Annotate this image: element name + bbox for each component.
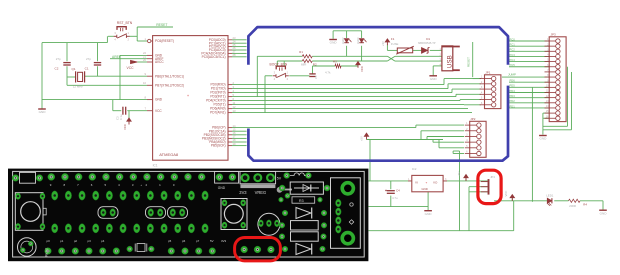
svg-text:D1: D1 — [426, 37, 430, 41]
svg-text:Reset: Reset — [45, 248, 49, 257]
svg-text:PB6(XTAL1/TOSC1): PB6(XTAL1/TOSC1) — [155, 74, 184, 78]
svg-text:PC3: PC3 — [510, 53, 516, 57]
svg-text:R3: R3 — [333, 60, 337, 64]
svg-text:GND: GND — [422, 187, 428, 191]
svg-text:USB: USB — [446, 55, 453, 68]
svg-text:C2: C2 — [55, 67, 59, 71]
svg-text:JP4: JP4 — [490, 175, 495, 179]
svg-text:GND: GND — [330, 41, 338, 45]
svg-text:RESET: RESET — [467, 57, 471, 67]
svg-text:GND: GND — [539, 137, 547, 141]
svg-text:R3: R3 — [299, 199, 304, 203]
svg-text:PD1: PD1 — [510, 104, 516, 108]
svg-text:PB7(XTAL2/TOSC2): PB7(XTAL2/TOSC2) — [155, 83, 184, 87]
svg-text:PD6: PD6 — [510, 79, 516, 83]
svg-text:p1: p1 — [60, 239, 64, 243]
svg-text:VCC: VCC — [360, 66, 364, 72]
svg-text:VCC: VCC — [504, 191, 508, 197]
svg-text:3V3: 3V3 — [239, 190, 247, 195]
svg-text:+5V: +5V — [457, 171, 461, 176]
svg-text:GND: GND — [430, 77, 438, 81]
svg-text:10: 10 — [143, 81, 146, 85]
svg-text:GND: GND — [218, 186, 226, 190]
svg-text:R2: R2 — [313, 62, 317, 66]
svg-text:+5V: +5V — [381, 41, 385, 46]
svg-text:12 MHz: 12 MHz — [73, 85, 84, 89]
svg-text:RST_BTN: RST_BTN — [117, 21, 133, 25]
svg-text:PC1: PC1 — [510, 42, 516, 46]
svg-text:VCC: VCC — [155, 109, 162, 113]
svg-text:14: 14 — [233, 124, 236, 128]
svg-text:PD7(AIN1): PD7(AIN1) — [210, 111, 225, 115]
svg-text:27: 27 — [233, 50, 236, 54]
svg-text:R4: R4 — [583, 202, 587, 206]
svg-text:VI: VI — [415, 180, 418, 184]
svg-text:FUSE: FUSE — [391, 42, 399, 46]
svg-text:IC2: IC2 — [412, 167, 417, 171]
svg-text:C5: C5 — [314, 75, 318, 79]
svg-text:18: 18 — [233, 138, 236, 142]
svg-text:ATMEGA8: ATMEGA8 — [159, 152, 179, 157]
svg-text:17: 17 — [233, 135, 236, 139]
svg-text:PD2: PD2 — [510, 99, 516, 103]
svg-text:p2: p2 — [74, 239, 78, 243]
svg-text:LED1: LED1 — [546, 193, 554, 197]
svg-text:p4: p4 — [101, 239, 105, 243]
svg-text:LED2: LED2 — [341, 37, 345, 44]
svg-text:GND: GND — [155, 98, 163, 102]
svg-text:C4: C4 — [396, 189, 400, 193]
svg-text:27p: 27p — [56, 57, 61, 61]
svg-text:68R: 68R — [301, 62, 306, 66]
svg-text:JP3: JP3 — [551, 33, 557, 37]
svg-text:4.7k: 4.7k — [325, 70, 331, 74]
svg-text:VCC: VCC — [127, 66, 135, 70]
svg-text:IC1: IC1 — [153, 163, 158, 167]
svg-text:PD5: PD5 — [510, 84, 516, 88]
svg-text:JP2: JP2 — [470, 117, 476, 121]
svg-text:p5: p5 — [168, 239, 172, 243]
svg-text:GND: GND — [425, 212, 433, 216]
svg-text:PC5(ADC5/SCL): PC5(ADC5/SCL) — [202, 55, 226, 59]
svg-text:27p: 27p — [86, 57, 91, 61]
svg-text:VO: VO — [433, 180, 438, 184]
svg-text:25: 25 — [233, 43, 236, 47]
svg-text:p6: p6 — [182, 239, 186, 243]
svg-text:GND: GND — [600, 211, 608, 215]
svg-text:p0: p0 — [47, 239, 51, 243]
svg-text:R1: R1 — [299, 50, 303, 54]
svg-text:AREF: AREF — [112, 55, 121, 59]
svg-text:12: 12 — [233, 105, 236, 109]
svg-text:5V: 5V — [277, 177, 282, 181]
svg-text:VCC: VCC — [123, 124, 127, 130]
svg-text:C1: C1 — [85, 67, 89, 71]
svg-text:23: 23 — [233, 36, 236, 40]
svg-text:5V: 5V — [210, 239, 214, 243]
svg-text:200R: 200R — [569, 204, 576, 208]
svg-text:p7: p7 — [196, 239, 200, 243]
svg-text:PD3: PD3 — [510, 94, 516, 98]
svg-text:19: 19 — [233, 142, 236, 146]
svg-text:PC2: PC2 — [510, 48, 516, 52]
svg-text:PD4: PD4 — [510, 89, 516, 93]
svg-text:0.1u: 0.1u — [119, 114, 123, 120]
svg-text:F1: F1 — [391, 37, 395, 41]
svg-text:LED3: LED3 — [356, 37, 360, 44]
svg-text:MBRX0545-TP: MBRX0545-TP — [418, 41, 436, 45]
svg-text:20: 20 — [143, 58, 146, 62]
svg-text:4.7u: 4.7u — [392, 196, 398, 200]
svg-text:16: 16 — [233, 131, 236, 135]
svg-text:3V3: 3V3 — [221, 239, 227, 243]
svg-text:JP1: JP1 — [485, 70, 491, 74]
svg-text:+: + — [187, 94, 189, 98]
svg-text:24: 24 — [233, 39, 236, 43]
svg-text:GND: GND — [39, 110, 47, 114]
svg-text:PC6(RESET): PC6(RESET) — [155, 39, 174, 43]
svg-text:+: + — [426, 180, 428, 184]
svg-text:PC5: PC5 — [510, 63, 516, 67]
svg-text:RESET: RESET — [156, 23, 167, 27]
svg-text:p3: p3 — [88, 239, 92, 243]
svg-text:VREG: VREG — [255, 190, 267, 195]
svg-text:Q1: Q1 — [72, 67, 76, 71]
svg-text:+5V: +5V — [359, 136, 363, 141]
svg-text:15: 15 — [233, 127, 236, 131]
svg-text:13: 13 — [233, 109, 236, 113]
svg-text:JUMP: JUMP — [508, 73, 516, 77]
svg-text:PB5(SCK): PB5(SCK) — [211, 144, 226, 148]
svg-text:AVCC: AVCC — [155, 60, 164, 64]
svg-text:28: 28 — [233, 53, 236, 57]
svg-text:26: 26 — [233, 46, 236, 50]
svg-text:PC0: PC0 — [510, 37, 516, 41]
svg-text:PC4: PC4 — [510, 58, 516, 62]
